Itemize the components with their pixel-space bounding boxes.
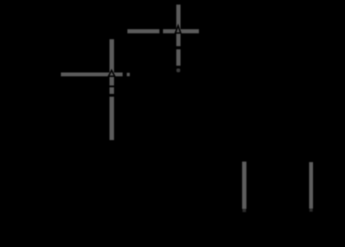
wire: upper vertical dash below junction [176, 49, 180, 65]
wire: lower vertical dash 1 [110, 87, 115, 94]
wire: upper vertical segment (drain lead of D1 node) [176, 5, 180, 47]
capacitor C1: left plate [242, 162, 246, 212]
capacitor C1: right plate [309, 162, 313, 212]
wire: lower horizontal dash right of junction [127, 73, 130, 76]
node A: faint terminal dot below upper symbol [176, 69, 180, 73]
diode D1: triangle marker at upper junction [175, 26, 180, 33]
wire: upper horizontal right segment through junction [163, 29, 199, 33]
wire: upper horizontal left segment [127, 29, 159, 33]
wire: lower vertical long segment to bottom [110, 97, 115, 140]
diode D2: triangle marker at lower junction [109, 70, 115, 76]
wire: lower vertical segment through junction [110, 39, 115, 85]
wire: lower horizontal main segment [61, 73, 123, 77]
